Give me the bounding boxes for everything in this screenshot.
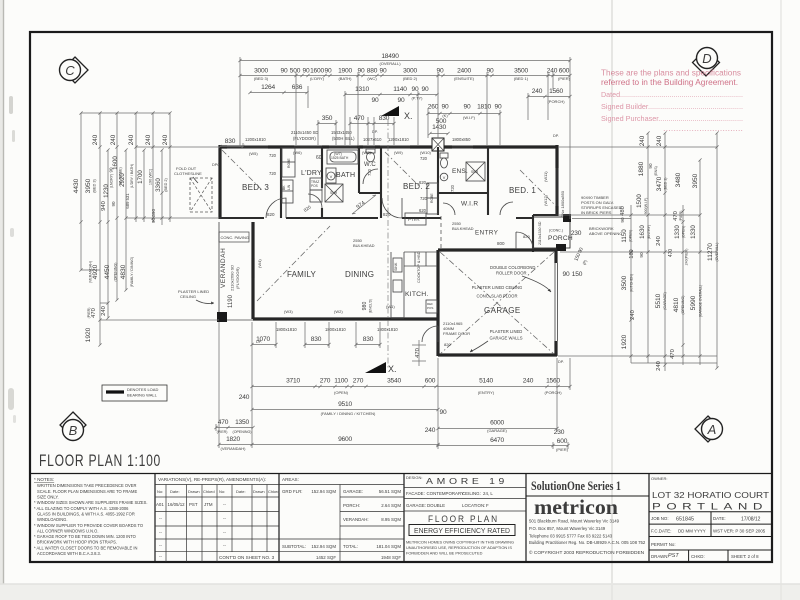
svg-text:No:: No: [157, 489, 163, 494]
svg-text:500: 500 [290, 68, 301, 75]
svg-text:GARAGE: GARAGE [484, 306, 521, 315]
svg-text:1810: 1810 [477, 104, 491, 111]
svg-text:(BATH): (BATH) [338, 76, 352, 81]
svg-text:1200x1810: 1200x1810 [245, 137, 266, 142]
svg-text:1920: 1920 [85, 327, 92, 342]
svg-text:2.64 SQM: 2.64 SQM [381, 503, 401, 508]
dim row3 top [261, 84, 563, 95]
svg-text:620: 620 [419, 208, 427, 213]
svg-text:1100: 1100 [334, 378, 348, 385]
svg-text:260: 260 [428, 104, 439, 111]
svg-text:636: 636 [292, 84, 303, 91]
svg-text:240: 240 [162, 134, 169, 145]
facade row [406, 491, 493, 496]
ldry appliance boxes [310, 178, 322, 202]
svg-text:JTM: JTM [204, 502, 213, 507]
svg-text:1140: 1140 [393, 86, 407, 93]
left rotated dim texts [73, 134, 169, 342]
bed1 door arc [500, 202, 513, 215]
garage ceiling note [472, 285, 523, 299]
scanner bottom band [0, 584, 800, 600]
svg-text:Drawn: Drawn [188, 489, 200, 494]
svg-text:720: 720 [450, 184, 455, 192]
svg-text:1820: 1820 [226, 436, 240, 443]
svg-text:90: 90 [639, 252, 644, 258]
svg-text:720: 720 [420, 196, 428, 201]
top wall pier box [432, 138, 444, 151]
variations column headers [157, 489, 280, 494]
design row [406, 475, 508, 486]
svg-text:COOKTOP & HBD: COOKTOP & HBD [417, 251, 421, 283]
timber posts note [581, 195, 622, 215]
svg-text:(FAMILY / DINING / KITCHEN): (FAMILY / DINING / KITCHEN) [321, 411, 376, 416]
svg-text:TOTAL:: TOTAL: [343, 544, 358, 549]
svg-text:PLASTER LINED CEILING: PLASTER LINED CEILING [472, 285, 523, 290]
svg-text:1350: 1350 [235, 419, 249, 426]
energy box [409, 525, 515, 536]
left dim chains [79, 111, 82, 271]
svg-text:DP.: DP. [558, 360, 564, 364]
windows in south wall [272, 318, 405, 321]
svg-text:CHKD:: CHKD: [691, 554, 705, 559]
variations grid [155, 485, 279, 552]
svg-text:180: 180 [629, 249, 635, 258]
svg-text:150: 150 [572, 271, 583, 278]
svg-text:1430: 1430 [432, 124, 446, 131]
garage right wall with roller opening [555, 250, 558, 356]
svg-text:SHR: SHR [330, 191, 338, 195]
svg-text:(PORCH): (PORCH) [547, 99, 565, 104]
svg-text:SINK: SINK [394, 262, 398, 271]
svg-text:1525 BATH: 1525 BATH [331, 156, 349, 160]
bed1 roof line [520, 170, 554, 204]
west window W4 [252, 258, 255, 278]
svg-text:DOUBLE COLORBOND: DOUBLE COLORBOND [490, 265, 535, 270]
garage roof diagonal 1 [440, 252, 554, 354]
svg-text:230: 230 [571, 230, 582, 237]
svg-text:240: 240 [239, 394, 250, 401]
svg-text:(ENS): (ENS) [654, 166, 658, 176]
svg-text:90: 90 [303, 68, 310, 75]
svg-text:BED. 1: BED. 1 [509, 186, 536, 195]
dim 500 1430 [432, 118, 447, 131]
svg-text:(OPENING): (OPENING) [681, 296, 685, 315]
svg-text:PST: PST [668, 553, 679, 559]
svg-text:90: 90 [464, 104, 471, 111]
svg-text:SHEET: 2 of 8: SHEET: 2 of 8 [731, 554, 759, 559]
bath vanity [326, 168, 336, 183]
svg-text:4920: 4920 [92, 264, 99, 279]
ref pos box [426, 300, 437, 313]
svg-text:PST: PST [189, 502, 198, 507]
svg-text:830: 830 [225, 138, 236, 145]
bed1 east windows [556, 168, 559, 206]
bath shower [325, 184, 343, 202]
svg-text:470: 470 [218, 419, 229, 426]
svg-text:ROBE: ROBE [287, 158, 291, 168]
svg-text:LOT 32 HORATIO COURT: LOT 32 HORATIO COURT [652, 490, 769, 500]
svg-text:240: 240 [630, 310, 636, 320]
svg-text:240: 240 [523, 378, 534, 385]
svg-text:POS: POS [427, 306, 433, 310]
svg-text:1027x610: 1027x610 [363, 137, 382, 142]
svg-text:LOCATION:: LOCATION: [462, 503, 485, 508]
svg-text:1880: 1880 [638, 161, 645, 176]
svg-text:1630: 1630 [639, 225, 646, 239]
svg-text:1310: 1310 [355, 86, 369, 93]
svg-text:DENOTES LOAD: DENOTES LOAD [127, 387, 158, 392]
svg-text:1800x850: 1800x850 [452, 137, 471, 142]
svg-text:BATH: BATH [336, 172, 355, 179]
svg-text:3710: 3710 [286, 378, 300, 385]
kitchen bench [391, 252, 437, 318]
fold out clothesline [174, 166, 212, 212]
svg-text:600: 600 [425, 378, 436, 385]
svg-text:(CONC.): (CONC.) [549, 229, 563, 233]
dim row 1070 830 830 [256, 336, 374, 343]
bath/wc wall [358, 147, 360, 193]
svg-text:820: 820 [383, 212, 391, 217]
svg-text:L'DRY: L'DRY [301, 170, 322, 177]
svg-text:(W9): (W9) [394, 150, 403, 155]
svg-text:(W4): (W4) [257, 259, 262, 268]
svg-text:JOB NO:: JOB NO: [651, 516, 669, 521]
right rotated dim texts [620, 135, 719, 371]
svg-text:LIN: LIN [287, 184, 291, 190]
svg-text:152.94 SQM: 152.94 SQM [311, 544, 336, 549]
svg-text:2110x1450 SD: 2110x1450 SD [291, 130, 318, 135]
bk lin labels [282, 158, 434, 203]
svg-text:2110x1330 SD: 2110x1330 SD [538, 221, 542, 245]
svg-text:2110x2690 SD: 2110x2690 SD [230, 265, 235, 291]
title block outer grid [30, 474, 772, 563]
svg-text:90: 90 [442, 104, 449, 111]
section marker X top [381, 106, 413, 121]
wc south wall [359, 192, 381, 194]
svg-text:3000: 3000 [254, 68, 268, 75]
svg-text:Dated.........................: Dated...................................… [601, 90, 743, 99]
garage internal door arc [422, 326, 438, 342]
ptry box [405, 213, 426, 225]
porch outline [533, 214, 571, 251]
svg-text:17/08/12: 17/08/12 [741, 517, 761, 523]
dp labels [212, 130, 564, 364]
family roof hip line [257, 226, 330, 301]
svg-text:(VERANDAH): (VERANDAH) [221, 446, 247, 451]
dim 1820 9600 6470 row [226, 436, 568, 445]
svg-text:620: 620 [419, 180, 427, 185]
svg-text:(W8): (W8) [362, 150, 371, 155]
svg-text:240: 240 [145, 134, 152, 145]
svg-text:8.95 SQM: 8.95 SQM [381, 517, 401, 522]
extension lines top [240, 57, 570, 219]
svg-text:689 531: 689 531 [125, 193, 130, 209]
svg-text:P'TRY.: P'TRY. [408, 217, 420, 222]
svg-text:940: 940 [101, 201, 107, 211]
bottom extension lines [216, 322, 570, 449]
svg-text:(PORCH): (PORCH) [544, 390, 562, 395]
svg-text:90: 90 [398, 97, 405, 104]
svg-text:DP.: DP. [553, 134, 559, 138]
svg-text:24, L: 24, L [483, 491, 493, 496]
svg-text:5140: 5140 [479, 378, 493, 385]
dim main bottom row [286, 378, 560, 385]
svg-text:CONTEMPORARY: CONTEMPORARY [427, 491, 465, 496]
flydoor label vertical [230, 265, 241, 291]
svg-text:1948 SQF: 1948 SQF [381, 555, 401, 560]
svg-text:470: 470 [668, 249, 674, 258]
svg-text:WINDLOADING.: WINDLOADING. [37, 517, 67, 522]
svg-text:FLOOR PLAN: FLOOR PLAN [428, 514, 499, 524]
svg-text:1800x1810: 1800x1810 [276, 327, 297, 332]
svg-text:(FAMILY / DINING): (FAMILY / DINING) [130, 257, 134, 287]
bath tub [327, 150, 358, 164]
svg-text:PORTLAND: PORTLAND [652, 502, 768, 513]
svg-text:(OPENING): (OPENING) [233, 430, 252, 434]
svg-text:240(PIER): 240(PIER) [685, 249, 689, 266]
svg-text:UNAUTHORISED USE, REPRODUCTION: UNAUTHORISED USE, REPRODUCTION OF ADAPTI… [406, 545, 512, 550]
svg-text:BED. 3: BED. 3 [242, 183, 269, 192]
svg-text:720: 720 [367, 168, 372, 176]
svg-text:Building Practitioner Reg. No.: Building Practitioner Reg. No. DB-U8929 … [529, 540, 646, 545]
svg-text:3500: 3500 [514, 68, 528, 75]
svg-text:90 590: 90 590 [151, 209, 156, 223]
svg-text:(PIER): (PIER) [558, 76, 571, 81]
areas grid [279, 485, 404, 563]
svg-text:* GARAGE ROOF TO BE TIED: * GARAGE ROOF TO BE TIED DOWN MIN. 1200 … [34, 534, 136, 539]
bulkhead note dining [353, 238, 375, 248]
paper right edge [780, 0, 782, 600]
svg-text:1560: 1560 [549, 88, 563, 95]
elevation marker C [60, 57, 89, 83]
svg-text:56.51 SQM: 56.51 SQM [379, 489, 402, 494]
svg-text:(FLYDOOR): (FLYDOOR) [293, 136, 316, 141]
conc paving box [219, 232, 249, 242]
svg-text:830: 830 [363, 336, 374, 343]
copyright small [406, 540, 514, 556]
svg-text:SUBTOTAL:: SUBTOTAL: [282, 544, 306, 549]
scanner left edge [0, 0, 3, 600]
svg-text:A01: A01 [156, 502, 164, 507]
svg-text:651845: 651845 [676, 517, 694, 523]
bed2 roof line [385, 152, 420, 187]
scan smudges left margin [8, 96, 16, 423]
svg-text:(OPEN): (OPEN) [334, 390, 349, 395]
dim 6000 garage row [425, 420, 565, 437]
svg-text:501 Blackburn Road, Mount: 501 Blackburn Road, Mount Waverley Vic 3… [529, 519, 620, 524]
svg-text:* WINDOW SIZES SHOWN ARE S: * WINDOW SIZES SHOWN ARE SUPPLIERS FRAME… [34, 500, 148, 505]
svg-text:PORCH: PORCH [548, 235, 573, 242]
svg-text:90: 90 [495, 104, 502, 111]
hall wall (load bearing) [219, 217, 534, 219]
dim row4 [372, 97, 405, 104]
svg-text:Signed Builder................: Signed Builder..........................… [601, 102, 743, 111]
dim 470 1350 row [218, 419, 250, 426]
svg-text:ABOVE OPENING: ABOVE OPENING [589, 231, 622, 236]
svg-text:OWNER:: OWNER: [651, 476, 667, 481]
dim 230 porch side [571, 230, 588, 266]
svg-text:DD MM YYYY: DD MM YYYY [678, 529, 706, 534]
svg-text:CEILING:: CEILING: [462, 491, 481, 496]
svg-text:(W10): (W10) [420, 150, 432, 155]
svg-text:V: V [330, 174, 333, 179]
svg-text:1560: 1560 [546, 378, 560, 385]
svg-text:POS: POS [311, 184, 318, 188]
svg-text:1330: 1330 [690, 225, 697, 239]
svg-text:..............................: ............................... [663, 124, 743, 133]
bed3 roof line [222, 150, 262, 190]
svg-text:900(W.I.F): 900(W.I.F) [644, 198, 648, 215]
svg-text:Telephone 03 9915 5777: Telephone 03 9915 5777 Fax 03 9222 5143 [529, 534, 613, 539]
svg-text:IN BRICK PIERS: IN BRICK PIERS [581, 210, 612, 215]
svg-text:60: 60 [316, 155, 322, 161]
top exterior wall [219, 145, 558, 148]
svg-text:240: 240 [656, 236, 662, 246]
svg-text:(GARAGE): (GARAGE) [663, 292, 667, 310]
svg-text:90: 90 [620, 217, 625, 223]
svg-text:BULKHEAD: BULKHEAD [353, 243, 375, 248]
svg-text:1452 SQF: 1452 SQF [316, 555, 336, 560]
svg-text:FRAME DOOR: FRAME DOOR [443, 331, 470, 336]
robe 620 labels [419, 180, 427, 213]
window labels W11 W12 [543, 171, 548, 206]
svg-text:CONC. SLAB FLOOR: CONC. SLAB FLOOR [477, 294, 518, 299]
svg-text:Drawn: Drawn [253, 489, 265, 494]
svg-text:(ENTRY): (ENTRY) [647, 225, 651, 240]
svg-text:3950: 3950 [85, 178, 92, 193]
svg-text:1150: 1150 [621, 229, 628, 243]
svg-text:GARAGE:: GARAGE: [343, 489, 363, 494]
dim row5 K WIF [428, 104, 502, 111]
svg-text:720: 720 [420, 156, 428, 161]
roller door note [490, 265, 551, 292]
garage bottom wall [438, 353, 557, 356]
dim 90 150 garage right [563, 271, 583, 278]
svg-text:(500H SILL): (500H SILL) [332, 136, 355, 141]
svg-text:240: 240 [532, 88, 543, 95]
svg-text:820: 820 [523, 234, 530, 239]
variations row A01 [156, 502, 226, 507]
ens toilet [440, 153, 448, 168]
svg-text:B: B [69, 423, 78, 438]
windows in top wall [227, 146, 473, 149]
svg-text:WST VER: P 30 SEP 2005: WST VER: P 30 SEP 2005 [713, 529, 766, 534]
svg-text:152.94 SQM: 152.94 SQM [311, 489, 336, 494]
svg-text:(W1): (W1) [386, 304, 395, 309]
svg-text:ENS.: ENS. [452, 168, 468, 175]
svg-text:PLASTER LINED: PLASTER LINED [490, 329, 523, 334]
svg-text:3360: 3360 [155, 178, 162, 192]
right horizontal connectors [558, 147, 717, 363]
svg-text:240: 240 [639, 135, 646, 146]
svg-text:SCALE. FLOOR PLAN DIMENSION: SCALE. FLOOR PLAN DIMENSIONS ARE TO FRAM… [37, 489, 137, 494]
svg-text:V: V [443, 176, 446, 180]
svg-text:* ALL GLAZING TO COMPLY WI: * ALL GLAZING TO COMPLY WITH A.S. 1288-2… [34, 506, 129, 511]
svg-text:ALL CORNER WINDOWS U.N.O.: ALL CORNER WINDOWS U.N.O. [37, 528, 99, 533]
svg-text:ENTRY: ENTRY [475, 230, 498, 237]
metricon address [529, 519, 646, 546]
svg-text:820: 820 [267, 212, 275, 217]
svg-text:350: 350 [322, 115, 333, 122]
svg-text:SHR: SHR [471, 170, 479, 174]
svg-text:C: C [65, 63, 75, 78]
1800x1810 labels south [276, 327, 398, 332]
svg-text:(PIER): (PIER) [556, 447, 569, 452]
svg-text:BK: BK [282, 185, 286, 190]
svg-text:4450: 4450 [104, 264, 111, 279]
svg-text:FAMILY: FAMILY [287, 270, 317, 279]
svg-text:P.O. Box 857, Mount Waverl: P.O. Box 857, Mount Waverley Vic 3149 [529, 526, 606, 531]
svg-text:16/05/12: 16/05/12 [168, 502, 186, 507]
svg-text:1700: 1700 [137, 170, 144, 184]
bed3 door arc [266, 198, 286, 218]
svg-text:1920: 1920 [621, 334, 628, 349]
svg-text:3000: 3000 [403, 68, 417, 75]
svg-text:(L'DRY / BATH): (L'DRY / BATH) [130, 164, 134, 188]
svg-text:SolutionOne Series 1: SolutionOne Series 1 [531, 479, 621, 493]
garage roof diagonal 2 [440, 252, 554, 354]
ldry/bath wall [321, 147, 323, 218]
svg-text:(PIER): (PIER) [679, 211, 683, 222]
svg-text:(W12): (W12) [543, 194, 548, 206]
svg-text:WRITTEN DIMENSIONS TAKE PRE: WRITTEN DIMENSIONS TAKE PRECEDENCE OVER [37, 483, 137, 488]
svg-text:3950: 3950 [692, 173, 699, 188]
svg-text:FLOOR PLAN 1:100: FLOOR PLAN 1:100 [39, 451, 161, 470]
svg-text:90: 90 [487, 68, 494, 75]
svg-text:ROBE: ROBE [430, 193, 434, 203]
svg-text:720: 720 [269, 171, 277, 176]
svg-text:90: 90 [648, 163, 653, 169]
svg-text:1200x1810: 1200x1810 [388, 137, 409, 142]
svg-text:240: 240 [547, 68, 558, 75]
svg-text:(GARAGE OVERALL): (GARAGE OVERALL) [699, 285, 703, 317]
variations dash rows [159, 516, 226, 559]
svg-text:240: 240 [92, 134, 99, 145]
svg-text:4430: 4430 [73, 178, 80, 193]
svg-text:2400: 2400 [457, 68, 471, 75]
elevation marker A [695, 416, 723, 442]
svg-text:W.I.R: W.I.R [461, 201, 478, 208]
svg-text:SIZE ONLY.: SIZE ONLY. [37, 495, 59, 500]
svg-text:DINING: DINING [345, 270, 374, 279]
svg-text:(LNDRY): (LNDRY) [110, 174, 114, 189]
svg-text:X.: X. [388, 364, 397, 374]
wall below BED1 [533, 214, 558, 216]
svg-text:ENERGY EFFICIENCY RATED: ENERGY EFFICIENCY RATED [414, 526, 510, 535]
svg-text:DPC: DPC [212, 163, 220, 167]
svg-text:W.C: W.C [364, 162, 376, 168]
svg-text:820: 820 [444, 342, 451, 347]
svg-text:1330: 1330 [674, 225, 681, 239]
svg-text:830: 830 [311, 336, 322, 343]
svg-text:240: 240 [128, 134, 135, 145]
svg-text:90: 90 [372, 97, 379, 104]
svg-text:CONT'D ON SHEET NO. 3: CONT'D ON SHEET NO. 3 [219, 555, 275, 560]
svg-text:GARAGE:: GARAGE: [406, 503, 426, 508]
svg-text:240: 240 [110, 134, 117, 145]
plaster lined ceiling note [178, 289, 214, 305]
svg-text:3470: 3470 [656, 176, 663, 191]
svg-text:No:: No: [219, 489, 225, 494]
svg-text:720: 720 [269, 153, 277, 158]
section cut line X [387, 120, 389, 368]
svg-text:(BED 3): (BED 3) [93, 179, 97, 193]
entry door arc [516, 232, 533, 249]
svg-text:ROLLER DOOR: ROLLER DOOR [496, 271, 526, 276]
svg-text:DOUBLE: DOUBLE [427, 503, 445, 508]
design grid [404, 488, 526, 512]
svg-text:(L'DRY): (L'DRY) [310, 76, 325, 81]
